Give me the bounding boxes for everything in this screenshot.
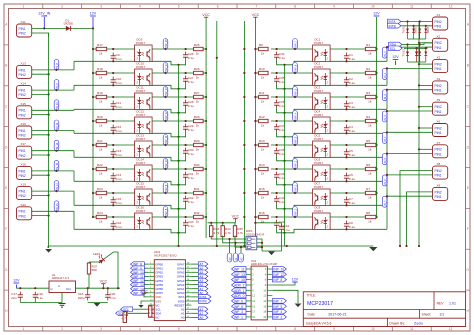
junction SCL tvs — [415, 47, 417, 49]
junction dip common — [261, 242, 263, 244]
svg-text:PC817: PC817 — [314, 185, 324, 189]
junction input cap C8 bottom — [345, 228, 347, 230]
net label A0 — [227, 253, 232, 262]
wire output row 4 to VCC bus right — [255, 144, 258, 146]
net label A2 — [198, 307, 208, 312]
junction input cap C6 top — [345, 168, 347, 170]
svg-text:PIN1: PIN1 — [435, 110, 442, 114]
svg-text:1k: 1k — [368, 100, 372, 104]
wire cathode jog right row 1 — [386, 68, 388, 85]
junction emitter right row 7 — [283, 232, 285, 234]
capacitor C35 — [274, 76, 285, 85]
wire A6 flag stub — [191, 267, 198, 269]
wire output row 5 — [152, 168, 193, 170]
svg-text:F: F — [5, 227, 7, 231]
svg-text:INP_3: INP_3 — [294, 136, 297, 143]
capacitor C20 — [105, 292, 116, 301]
net label INP_2 — [293, 159, 298, 170]
connector X17 — [17, 142, 32, 159]
ground — [94, 303, 101, 307]
svg-text:R26: R26 — [194, 67, 200, 71]
junction cap C13 bottom — [112, 156, 114, 158]
svg-text:G: G — [58, 284, 60, 288]
junction SDA tvs — [406, 43, 408, 45]
wire A0 flag stub — [191, 292, 198, 294]
svg-text:12V: 12V — [392, 55, 399, 59]
resistor R19 — [96, 91, 107, 104]
junction emitter right row 4 — [283, 160, 285, 162]
ic pin 6 GPB5 — [148, 283, 163, 287]
svg-text:IN_5: IN_5 — [384, 157, 387, 163]
svg-text:INP_7: INP_7 — [273, 300, 282, 304]
junction cap C14 top — [112, 168, 114, 170]
wire cathode jog right row 2 — [386, 90, 388, 110]
net label INP_13 — [163, 87, 168, 98]
connector X20 — [17, 203, 32, 220]
svg-text:IN_15: IN_15 — [56, 203, 59, 210]
junction aux bus row 0 — [243, 48, 245, 50]
junction input cap C8 top — [345, 216, 347, 218]
wire c17 bottom — [19, 300, 21, 302]
header X31 HDR-IDC-2.54-2X10P — [251, 259, 277, 320]
net label SDA — [116, 311, 128, 316]
resistor R14 — [259, 163, 269, 176]
junction emitter right row 1 — [283, 88, 285, 90]
resistor R17 — [96, 43, 107, 56]
svg-text:1k: 1k — [99, 124, 103, 128]
svg-text:PIN2: PIN2 — [435, 190, 442, 194]
junction net label out right row 1 — [294, 72, 296, 74]
wire cathode jog row 12 — [73, 131, 75, 134]
junction net label X20 — [55, 210, 57, 212]
svg-text:X7: X7 — [437, 141, 441, 145]
net label A3 — [198, 278, 208, 283]
wire A7 flag stub — [191, 263, 198, 265]
junction net label out right row 6 — [294, 192, 296, 194]
wire address vcc rail b — [255, 222, 281, 224]
svg-text:4.7k: 4.7k — [213, 231, 219, 235]
wire X9 PIN1 line — [387, 195, 433, 197]
connector X3 — [433, 56, 448, 73]
svg-text:0.1u: 0.1u — [284, 228, 290, 232]
ic pin 8 GPB7 — [148, 291, 163, 295]
header X31 pin 6 — [265, 279, 273, 282]
wire 12V supply stem — [15, 285, 17, 289]
svg-text:PC817: PC817 — [314, 89, 324, 93]
optocoupler OC7 PC817 — [313, 181, 331, 205]
svg-text:INP_7: INP_7 — [294, 40, 297, 47]
capacitor C4 — [344, 125, 355, 134]
wire X2 PIN1 line — [387, 46, 433, 48]
ground — [138, 305, 143, 308]
svg-text:INP_14: INP_14 — [165, 63, 168, 72]
tvs diode TVS2c — [424, 48, 427, 62]
svg-text:INP_11: INP_11 — [234, 268, 245, 272]
svg-text:12V: 12V — [90, 12, 97, 16]
svg-text:VCC: VCC — [140, 290, 148, 294]
capacitor C30 — [183, 148, 194, 157]
svg-text:PIN1: PIN1 — [435, 25, 442, 29]
junction 12V_IN tap — [43, 27, 45, 29]
svg-text:LED1: LED1 — [93, 252, 101, 256]
svg-text:11: 11 — [410, 5, 414, 9]
tvs diode TVS2b — [418, 45, 421, 63]
wire A2 stub — [191, 308, 198, 310]
svg-text:9: 9 — [333, 327, 335, 331]
net label IN_14 — [54, 181, 59, 192]
power flag VCC — [140, 290, 148, 294]
svg-text:PIN1: PIN1 — [435, 89, 442, 93]
net label ADR_0 — [232, 293, 247, 298]
junction cap C12 bottom — [112, 132, 114, 134]
wire X14 PIN2 stub — [32, 93, 49, 95]
svg-text:0.1u: 0.1u — [349, 57, 355, 61]
wire mid gnd bus — [216, 21, 218, 246]
wire emitter row 0 right bank — [285, 61, 313, 65]
svg-text:R6: R6 — [366, 163, 370, 167]
junction emitter row 0 — [177, 64, 179, 66]
junction addr vcc — [210, 222, 212, 224]
junction net label X9 — [386, 195, 388, 197]
net label A6 — [198, 266, 208, 271]
capacitor C11 — [111, 101, 122, 110]
wire INP_10 flag stub — [144, 271, 148, 273]
svg-text:PIN2: PIN2 — [19, 134, 26, 138]
svg-text:TVS1: TVS1 — [402, 26, 406, 33]
title block — [303, 292, 465, 327]
junction X20 PIN2 on gnd bus — [48, 215, 50, 217]
svg-text:R10: R10 — [259, 67, 265, 71]
junction net label out row 5 — [164, 168, 166, 170]
wire regulator output — [76, 287, 121, 289]
wire output row 2 right bank — [271, 96, 313, 98]
net label IN_6 — [382, 175, 387, 186]
connector X9 — [433, 183, 448, 200]
net label IN_8 — [54, 59, 59, 70]
svg-text:R16: R16 — [259, 211, 265, 215]
svg-text:R12: R12 — [259, 115, 265, 119]
net label INP_5 — [232, 304, 247, 309]
wire output row 3 — [152, 120, 193, 122]
junction emitter row 5 — [177, 184, 179, 186]
capacitor C13 — [111, 149, 122, 158]
svg-text:2: 2 — [61, 5, 63, 9]
svg-text:1/1: 1/1 — [439, 313, 444, 317]
junction cap C16 top — [112, 216, 114, 218]
net label INP_14 — [131, 286, 145, 291]
svg-text:EasyEDA V4.5.6: EasyEDA V4.5.6 — [306, 321, 331, 325]
power flag VCC — [252, 13, 260, 17]
junction output row 1 — [185, 72, 187, 74]
junction input cap C6 bottom — [345, 180, 347, 182]
svg-text:PIN1: PIN1 — [19, 190, 26, 194]
svg-text:R32: R32 — [194, 211, 200, 215]
svg-text:ADR_0: ADR_0 — [234, 294, 245, 298]
svg-text:INP_11: INP_11 — [165, 135, 168, 144]
junction X17 PIN2 on gnd bus — [48, 154, 50, 156]
ic pin 25 GPA4 — [177, 275, 192, 279]
wire cathode row 6 right bank — [330, 204, 387, 206]
wire INTB stub — [191, 300, 198, 302]
svg-text:DIODE: DIODE — [64, 22, 74, 26]
resistor R11 — [259, 91, 269, 104]
svg-text:INP_12: INP_12 — [165, 111, 168, 120]
svg-text:1k: 1k — [196, 124, 200, 128]
wire output row 0 to VCC bus — [203, 48, 206, 50]
net label A2 — [198, 282, 208, 287]
wire cap C30 to gnd bus — [179, 156, 186, 160]
svg-text:PIN1: PIN1 — [19, 109, 26, 113]
wire right bank gnd bus — [284, 65, 286, 246]
connector X5 — [433, 98, 448, 115]
svg-text:0.1u: 0.1u — [188, 56, 194, 60]
resistor R1 — [365, 43, 376, 56]
svg-text:INP_4: INP_4 — [273, 310, 282, 314]
junction right gnd bus rail — [418, 245, 420, 247]
svg-text:X14: X14 — [21, 82, 27, 86]
svg-text:PIN1: PIN1 — [435, 174, 442, 178]
svg-text:PIN2: PIN2 — [435, 105, 442, 109]
svg-text:PIN2: PIN2 — [19, 174, 26, 178]
wire anode feed right row 0 — [375, 48, 378, 50]
svg-text:PC817: PC817 — [136, 89, 146, 93]
svg-text:1k: 1k — [368, 124, 372, 128]
wire cap to gnd bus right row 3 — [277, 132, 285, 136]
junction output row 7 — [185, 216, 187, 218]
wire output row 0 to VCC bus right — [255, 48, 258, 50]
junction cap C12 top — [112, 120, 114, 122]
power flag VCC — [232, 215, 240, 219]
wire A5 flag stub — [191, 271, 198, 273]
header X31 pin 16 — [263, 305, 272, 308]
wire 12V flag stem — [92, 17, 94, 28]
wire cathode row 3 — [74, 132, 135, 134]
junction c17 — [19, 287, 21, 289]
resistor R35 — [233, 226, 243, 237]
svg-text:R19: R19 — [97, 91, 103, 95]
wire output row 7 — [152, 216, 193, 218]
svg-text:INP_12: INP_12 — [273, 273, 284, 277]
svg-text:1k: 1k — [368, 172, 372, 176]
svg-text:0.1u: 0.1u — [188, 200, 194, 204]
svg-text:4.7k: 4.7k — [237, 231, 243, 235]
optocoupler OC11 PC817 — [135, 85, 153, 109]
wire cap C29 to gnd bus — [179, 132, 186, 136]
capacitor C31 — [183, 172, 194, 181]
ground — [45, 249, 52, 253]
title block text Drawn By — [389, 321, 423, 325]
junction net label X19 — [55, 190, 57, 192]
net label INTB — [388, 24, 402, 29]
wire cathode row 0 right bank — [330, 60, 387, 62]
svg-text:B: B — [5, 64, 7, 68]
wire anode feed right row 6 — [375, 192, 378, 194]
resistor R6 — [365, 163, 376, 176]
junction net label out right row 7 — [294, 216, 296, 218]
junction X13 PIN2 on gnd bus — [48, 73, 50, 75]
optocoupler OC3 PC817 — [313, 85, 331, 109]
wire anode row 3 right bank — [330, 120, 365, 122]
capacitor C9 — [111, 53, 122, 62]
ic pin 4 GPB3 — [148, 275, 163, 279]
wire cathode jog row 16 — [73, 211, 75, 229]
junction aux bus row 4 — [243, 144, 245, 146]
wire 12V right stem — [395, 61, 397, 66]
header X31 pin 20 — [263, 316, 272, 319]
junction net label out right row 2 — [294, 96, 296, 98]
wire X2 PIN2 stub — [419, 42, 433, 44]
svg-text:X5: X5 — [437, 98, 441, 102]
net label INP_9 — [163, 183, 168, 194]
junction aux bus row 3 — [243, 120, 245, 122]
wire INTA to X1 — [401, 21, 433, 23]
svg-text:R20: R20 — [97, 115, 103, 119]
junction input cap C7 top — [345, 192, 347, 194]
svg-text:0.1u: 0.1u — [279, 56, 285, 60]
svg-text:IN_3: IN_3 — [384, 115, 387, 121]
svg-text:0.1u: 0.1u — [116, 105, 122, 109]
ic pin 7 GPB6 — [148, 287, 163, 291]
svg-text:0.1u: 0.1u — [110, 296, 116, 300]
svg-text:PC817: PC817 — [136, 185, 146, 189]
svg-text:3: 3 — [100, 5, 102, 9]
capacitor C38 — [274, 148, 285, 157]
wire cathode jog right row 5 — [386, 154, 388, 182]
svg-text:12: 12 — [449, 5, 453, 9]
wire X17 PIN1 line — [32, 150, 74, 152]
wire output row 3 to VCC bus right — [255, 120, 258, 122]
svg-text:MCP23017: MCP23017 — [307, 301, 333, 307]
svg-text:7: 7 — [256, 5, 258, 9]
svg-text:0.1u: 0.1u — [188, 104, 194, 108]
resistor R15 — [259, 187, 269, 200]
resistor R23 — [96, 187, 107, 200]
junction X18 PIN2 on gnd bus — [48, 174, 50, 176]
header X31 pin 3 — [246, 273, 254, 276]
resistor R3 — [365, 91, 376, 104]
svg-text:Drawn By:: Drawn By: — [389, 321, 405, 325]
resistor R28 — [194, 115, 204, 128]
wire output row 0 right bank — [271, 48, 313, 50]
ic pin 10 VSS — [148, 299, 161, 303]
wire INP_13 flag stub — [144, 284, 148, 286]
ic pin 2 GPB1 — [148, 267, 163, 271]
wire output row 2 — [152, 96, 193, 98]
svg-text:PIN1: PIN1 — [19, 129, 26, 133]
wire X7 PIN2 stub — [419, 148, 433, 150]
svg-text:1: 1 — [23, 327, 25, 331]
wire cathode row 4 right bank — [330, 156, 387, 158]
wire output row 1 — [152, 72, 193, 74]
svg-text:X4: X4 — [437, 77, 441, 81]
junction X6 PIN2 gnd bus — [418, 127, 420, 129]
ic pin 19 INTB — [178, 299, 192, 303]
svg-text:E: E — [5, 186, 7, 190]
svg-text:PC817: PC817 — [136, 161, 146, 165]
svg-text:X9: X9 — [437, 183, 441, 187]
wire cap to gnd bus right row 2 — [277, 108, 285, 112]
junction output cap tap row 6 — [276, 192, 278, 194]
wire anode feed row 4 — [93, 144, 97, 146]
wire cathode row 5 — [74, 180, 135, 182]
net label IN_10 — [54, 100, 59, 111]
capacitor C14 — [111, 173, 122, 182]
svg-text:PIN2: PIN2 — [19, 194, 26, 198]
header X31 pin 14 — [263, 300, 272, 303]
svg-text:R31: R31 — [194, 187, 200, 191]
tvs diode TVS4 SA05C — [415, 48, 420, 62]
junction emitter row 1 — [177, 88, 179, 90]
title block text REV — [437, 301, 456, 305]
connector X11 — [17, 20, 32, 37]
ic pin 9 VDD — [148, 295, 161, 299]
wire X11 PIN2 down — [32, 33, 49, 37]
svg-text:ADR_2: ADR_2 — [234, 284, 245, 288]
net label INP_13 — [131, 282, 145, 287]
net label INP_10 — [131, 270, 145, 275]
svg-text:PC817: PC817 — [314, 137, 324, 141]
junction X16 PIN2 on gnd bus — [48, 134, 50, 136]
junction net label out right row 4 — [294, 144, 296, 146]
wire X3 PIN1 line — [387, 67, 433, 69]
wire X18 PIN1 line — [32, 170, 74, 172]
wire output row 4 — [152, 144, 193, 146]
svg-text:PIN1: PIN1 — [435, 131, 442, 135]
svg-text:0.1u: 0.1u — [116, 201, 122, 205]
net label IN_0 — [382, 47, 387, 58]
wire cathode row 2 — [74, 108, 135, 110]
junction vcc out — [102, 287, 104, 289]
wire emitter row 2 to gnd bus — [152, 109, 178, 113]
svg-text:2: 2 — [61, 327, 63, 331]
svg-text:VCC: VCC — [202, 13, 210, 17]
junction cap C16 bottom — [112, 228, 114, 230]
junction cap C15 bottom — [112, 204, 114, 206]
wire anode feed row 2 — [93, 96, 97, 98]
wire output row 3 to VCC bus — [203, 120, 206, 122]
junction anode bus right row 7 — [375, 216, 377, 218]
svg-text:R5: R5 — [366, 139, 370, 143]
title block text Sheet — [422, 313, 445, 317]
capacitor C6 — [344, 173, 355, 182]
svg-text:R11: R11 — [259, 91, 265, 95]
wire INP_12 flag stub — [144, 280, 148, 282]
svg-text:PC817: PC817 — [314, 113, 324, 117]
svg-text:8: 8 — [294, 327, 296, 331]
capacitor C12 — [111, 125, 122, 134]
wire diode D1 to 12V node — [72, 27, 93, 29]
net label IN_3 — [382, 111, 387, 122]
junction emitter row 3 — [177, 136, 179, 138]
svg-text:Out: Out — [66, 287, 71, 291]
junction net label out row 2 — [164, 96, 166, 98]
svg-text:PIN2: PIN2 — [435, 169, 442, 173]
svg-text:0.1u: 0.1u — [188, 128, 194, 132]
wire cap C33 to gnd bus — [179, 228, 186, 232]
wire VCC supply stem — [102, 284, 104, 288]
svg-text:1k: 1k — [261, 52, 265, 56]
wire output row 6 to VCC bus right — [255, 192, 258, 194]
wire output row 4 right bank — [271, 144, 313, 146]
svg-text:0.1u: 0.1u — [349, 129, 355, 133]
junction anode bus right row 5 — [375, 168, 377, 170]
junction A2 — [240, 246, 242, 248]
resistor R5 — [365, 139, 376, 152]
wire cathode jog right row 4 — [386, 132, 388, 157]
svg-text:INTB: INTB — [199, 300, 206, 304]
svg-text:1k: 1k — [261, 148, 265, 152]
wire anode feed right row 4 — [375, 144, 378, 146]
